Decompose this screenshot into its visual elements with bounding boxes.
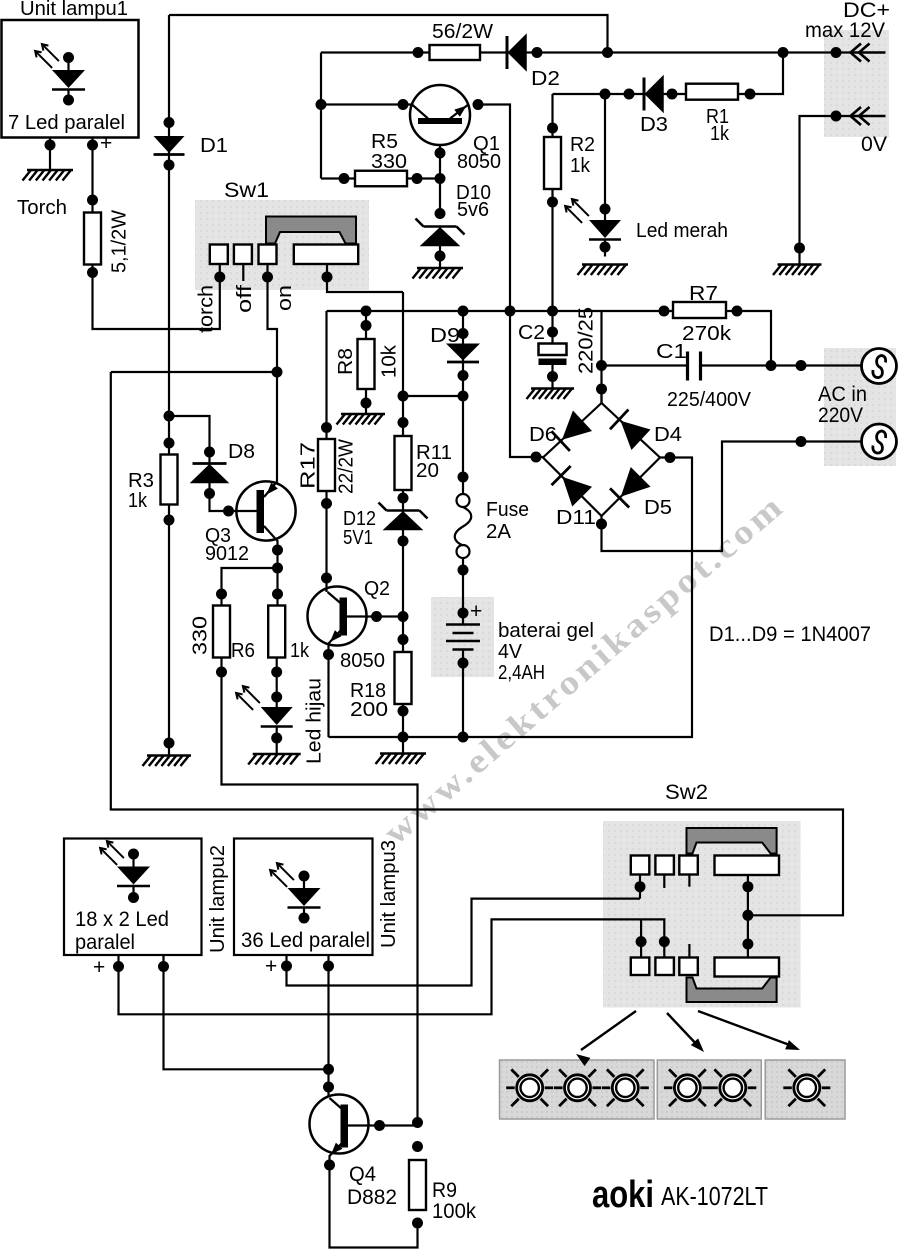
svg-text:22/2W: 22/2W: [336, 439, 358, 494]
svg-text:Q2: Q2: [364, 578, 390, 600]
svg-text:AC in: AC in: [818, 383, 867, 406]
svg-text:220/25: 220/25: [576, 307, 598, 374]
svg-text:R6: R6: [231, 640, 255, 662]
svg-text:R9: R9: [432, 1179, 457, 1202]
svg-text:D8: D8: [228, 441, 255, 463]
svg-text:D882: D882: [347, 1186, 397, 1209]
svg-text:D1: D1: [200, 135, 228, 157]
svg-text:18 x 2 Led: 18 x 2 Led: [75, 908, 169, 931]
svg-text:D4: D4: [654, 424, 682, 446]
svg-text:Led hijau: Led hijau: [304, 678, 326, 764]
svg-text:Torch: Torch: [17, 197, 67, 219]
svg-text:0V: 0V: [861, 133, 887, 156]
svg-text:+: +: [265, 955, 277, 978]
svg-text:D2: D2: [531, 68, 560, 90]
svg-text:paralel: paralel: [75, 931, 135, 954]
svg-text:R17: R17: [298, 442, 320, 489]
svg-text:D1...D9 = 1N4007: D1...D9 = 1N4007: [709, 623, 871, 646]
svg-text:200: 200: [350, 699, 388, 721]
svg-text:D3: D3: [640, 114, 668, 136]
svg-text:Q4: Q4: [349, 1163, 376, 1186]
svg-text:5V1: 5V1: [343, 527, 373, 549]
svg-text:Led merah: Led merah: [636, 220, 728, 242]
svg-text:aoki: aoki: [592, 1174, 654, 1216]
svg-text:8050: 8050: [340, 650, 385, 672]
svg-text:Sw2: Sw2: [665, 781, 708, 804]
svg-text:D5: D5: [644, 497, 672, 519]
svg-text:5,1/2W: 5,1/2W: [109, 210, 131, 273]
svg-text:5v6: 5v6: [457, 199, 489, 221]
svg-text:AK-1072LT: AK-1072LT: [661, 1181, 768, 1211]
svg-text:1k: 1k: [710, 123, 730, 145]
svg-text:Unit lampu3: Unit lampu3: [378, 840, 400, 948]
svg-text:C2: C2: [518, 322, 545, 344]
svg-text:D6: D6: [529, 424, 557, 446]
svg-text:36 Led paralel: 36 Led paralel: [241, 929, 370, 952]
svg-text:9012: 9012: [205, 543, 249, 565]
svg-text:C1: C1: [656, 341, 687, 363]
svg-text:Sw1: Sw1: [224, 179, 269, 202]
svg-text:56/2W: 56/2W: [432, 21, 493, 43]
svg-text:R8: R8: [335, 348, 357, 375]
svg-text:100k: 100k: [432, 1200, 476, 1223]
svg-text:R5: R5: [371, 131, 398, 153]
svg-text:20: 20: [416, 460, 439, 482]
svg-text:+: +: [100, 132, 112, 155]
svg-text:7 Led paralel: 7 Led paralel: [8, 112, 125, 134]
svg-text:10k: 10k: [379, 344, 401, 378]
svg-text:baterai gel: baterai gel: [498, 620, 594, 642]
svg-text:off: off: [234, 284, 256, 313]
svg-text:D9: D9: [430, 325, 460, 347]
svg-text:1k: 1k: [128, 490, 148, 512]
svg-text:+: +: [470, 600, 482, 623]
svg-text:270k: 270k: [682, 323, 732, 345]
svg-text:330: 330: [371, 151, 407, 173]
svg-text:Unit lampu2: Unit lampu2: [207, 845, 229, 953]
svg-text:max 12V: max 12V: [805, 19, 885, 42]
svg-text:Fuse: Fuse: [486, 499, 529, 521]
svg-text:Unit lampu1: Unit lampu1: [20, 0, 128, 20]
svg-text:4V: 4V: [498, 641, 523, 663]
svg-text:225/400V: 225/400V: [667, 389, 752, 411]
svg-text:R3: R3: [128, 470, 154, 492]
svg-text:330: 330: [190, 616, 212, 655]
svg-text:on: on: [274, 285, 296, 311]
svg-text:220V: 220V: [818, 404, 863, 427]
svg-text:1k: 1k: [290, 640, 310, 662]
svg-text:1k: 1k: [570, 155, 591, 177]
svg-text:R2: R2: [570, 134, 595, 156]
svg-text:D11: D11: [556, 507, 596, 529]
svg-text:torch: torch: [196, 285, 218, 333]
svg-text:2,4AH: 2,4AH: [498, 662, 545, 684]
svg-text:2A: 2A: [486, 521, 512, 543]
svg-text:8050: 8050: [457, 151, 501, 173]
svg-text:+: +: [93, 956, 105, 979]
